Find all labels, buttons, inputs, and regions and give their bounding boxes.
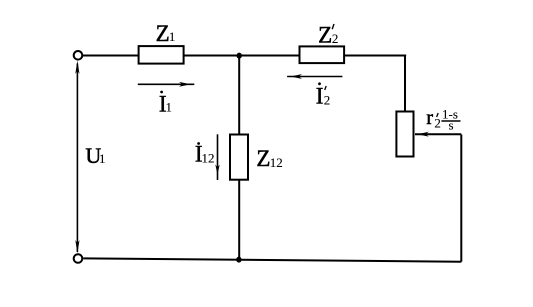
svg-text:s: s [449,118,454,133]
svg-text:2: 2 [434,115,441,130]
svg-text:Z: Z [318,23,332,48]
svg-text:2: 2 [324,92,331,107]
svg-text:12: 12 [202,151,215,166]
svg-text:I: I [316,83,324,108]
svg-text:Z: Z [156,21,170,46]
svg-text:2: 2 [332,31,339,46]
svg-text:1: 1 [99,151,106,166]
svg-text:12: 12 [270,155,283,170]
svg-text:1: 1 [166,100,173,115]
svg-text:r: r [426,107,433,129]
svg-text:1: 1 [169,29,176,44]
svg-text:Z: Z [256,146,270,171]
